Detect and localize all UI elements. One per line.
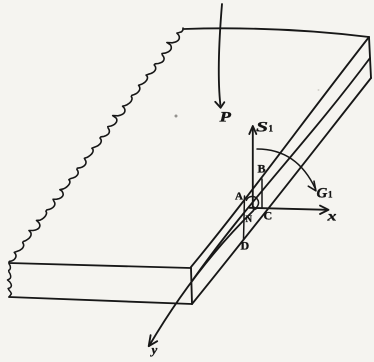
force arrow P head [215, 102, 224, 108]
scan speck [175, 115, 178, 118]
front face broken left edge [8, 263, 12, 297]
y axis [149, 211, 253, 346]
front face right edge [191, 268, 192, 304]
svg-text:G: G [317, 186, 328, 202]
moment arc arrowhead [308, 181, 316, 191]
front face bottom edge [9, 297, 192, 304]
svg-text:y: y [150, 342, 158, 357]
plate top far edge [184, 28, 369, 37]
side face bottom edge (line3) [192, 78, 371, 304]
side face mid line (line2) [192, 58, 370, 281]
shear arrow S1 shaft [252, 129, 254, 207]
svg-text:A: A [235, 191, 243, 203]
x axis [250, 208, 328, 210]
plate right end edge [369, 37, 371, 78]
rotation arrow at origin [246, 196, 258, 208]
svg-text:x: x [326, 210, 336, 225]
shear arrow S1 head [249, 126, 256, 134]
svg-text:N: N [246, 214, 253, 224]
element edge A-D [244, 196, 245, 240]
force arrow P shaft [219, 4, 222, 105]
rotation arrowhead [253, 205, 258, 210]
plate broken jagged edge [9, 28, 183, 262]
element edge B-C [261, 179, 263, 208]
svg-text:S: S [256, 120, 268, 136]
x axis arrowhead [320, 206, 329, 214]
svg-text:D: D [241, 239, 250, 253]
svg-text:1: 1 [328, 190, 333, 200]
side face top edge (line1) [191, 37, 369, 267]
y axis arrowhead [149, 335, 158, 346]
moment arc to G1 [257, 149, 316, 189]
svg-text:C: C [264, 209, 273, 223]
svg-text:1: 1 [269, 124, 274, 134]
svg-text:P: P [220, 110, 233, 126]
svg-text:B: B [258, 162, 266, 176]
front face top edge [9, 263, 191, 268]
